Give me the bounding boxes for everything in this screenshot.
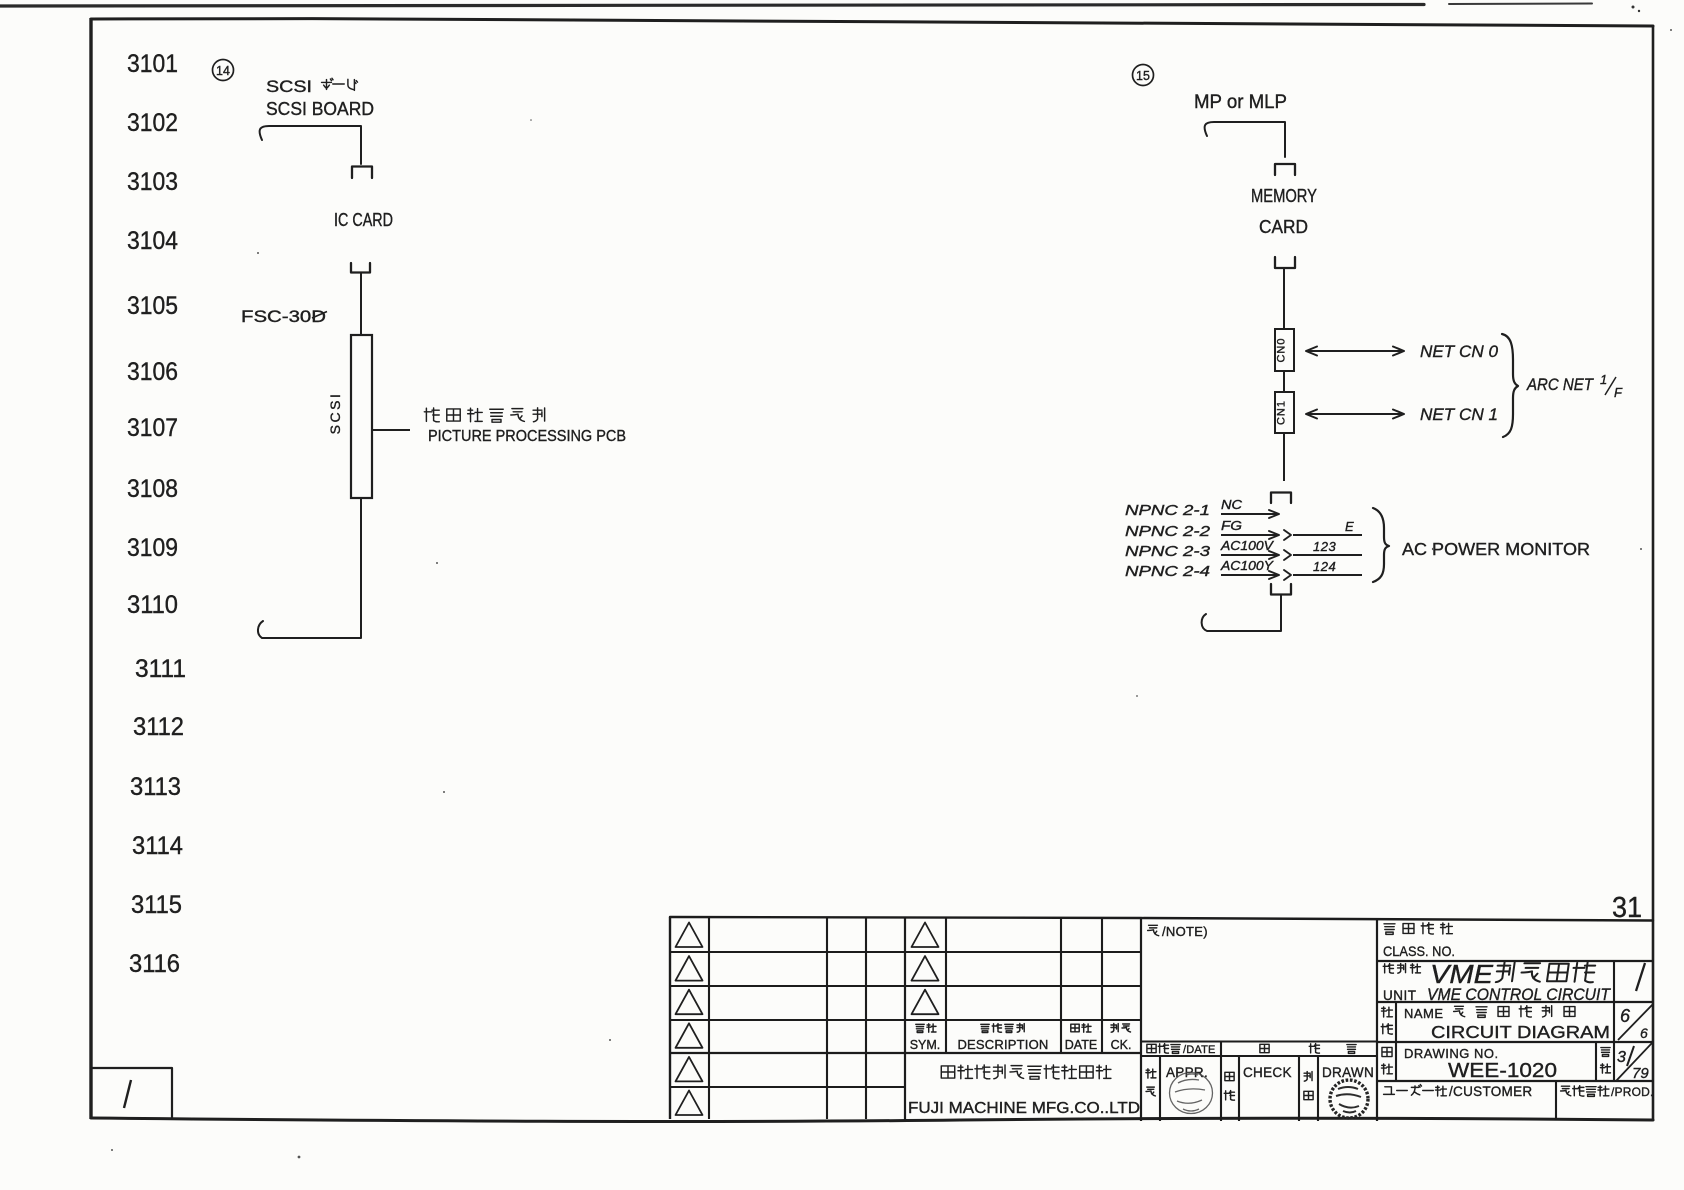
svg-text:PICTURE PROCESSING PCB: PICTURE PROCESSING PCB	[428, 428, 626, 445]
svg-text:NPNC 2-3: NPNC 2-3	[1125, 543, 1211, 560]
svg-text:3114: 3114	[132, 832, 183, 860]
svg-text:3102: 3102	[127, 109, 178, 137]
svg-text:UNIT: UNIT	[1383, 988, 1417, 1003]
svg-text:SYM.: SYM.	[910, 1038, 941, 1052]
svg-text:CLASS. NO.: CLASS. NO.	[1383, 943, 1455, 959]
svg-text:123: 123	[1313, 539, 1336, 554]
svg-text:6: 6	[1620, 1006, 1631, 1026]
svg-text:3106: 3106	[127, 358, 178, 386]
svg-text:3113: 3113	[130, 773, 181, 801]
svg-text:NET CN 1: NET CN 1	[1420, 405, 1498, 424]
svg-text:1: 1	[1600, 372, 1607, 387]
svg-text:3116: 3116	[129, 950, 180, 978]
svg-text:3112: 3112	[133, 713, 184, 741]
svg-text:124: 124	[1313, 559, 1336, 574]
svg-text:E: E	[1345, 519, 1354, 534]
svg-text:CIRCUIT DIAGRAM: CIRCUIT DIAGRAM	[1431, 1022, 1610, 1042]
svg-text:CN0: CN0	[1276, 337, 1288, 362]
svg-text:3115: 3115	[131, 891, 182, 919]
svg-text:NPNC 2-1: NPNC 2-1	[1125, 502, 1210, 519]
svg-text:FUJI MACHINE MFG.CO..LTD: FUJI MACHINE MFG.CO..LTD	[908, 1100, 1140, 1117]
svg-text:NPNC 2-2: NPNC 2-2	[1125, 523, 1211, 540]
svg-text:/CUSTOMER: /CUSTOMER	[1449, 1084, 1532, 1099]
svg-text:3110: 3110	[127, 591, 178, 619]
svg-text:CK.: CK.	[1111, 1038, 1132, 1052]
svg-text:DATE: DATE	[1065, 1038, 1097, 1052]
svg-text:NET CN 0: NET CN 0	[1420, 342, 1499, 361]
svg-text:SCSI: SCSI	[327, 392, 343, 435]
svg-text:3103: 3103	[127, 168, 178, 196]
svg-text:79: 79	[1632, 1065, 1649, 1082]
svg-text:15: 15	[1136, 69, 1150, 83]
svg-text:DRAWN: DRAWN	[1322, 1065, 1374, 1080]
svg-text:NAME: NAME	[1404, 1006, 1444, 1021]
svg-text:3: 3	[1617, 1049, 1626, 1066]
svg-text:31: 31	[1612, 892, 1642, 924]
svg-text:DESCRIPTION: DESCRIPTION	[957, 1037, 1048, 1052]
svg-text:3101: 3101	[127, 50, 178, 78]
svg-text:CHECK: CHECK	[1243, 1065, 1292, 1080]
svg-text:AC100Y: AC100Y	[1220, 559, 1275, 573]
svg-text:NC: NC	[1221, 498, 1243, 512]
svg-text:/DATE: /DATE	[1183, 1044, 1216, 1056]
svg-text:3111: 3111	[135, 655, 186, 683]
svg-text:CARD: CARD	[1259, 217, 1308, 237]
svg-text:NPNC 2-4: NPNC 2-4	[1125, 563, 1210, 580]
svg-text:CN1: CN1	[1276, 400, 1288, 425]
svg-text:FG: FG	[1221, 519, 1242, 533]
svg-text:3105: 3105	[127, 292, 178, 320]
svg-text:AC POWER MONITOR: AC POWER MONITOR	[1402, 539, 1590, 559]
svg-text:3107: 3107	[127, 414, 178, 442]
svg-text:6: 6	[1640, 1025, 1648, 1041]
svg-text:14: 14	[216, 64, 230, 78]
svg-text:MEMORY: MEMORY	[1251, 186, 1317, 206]
svg-text:AC100V: AC100V	[1220, 539, 1275, 553]
svg-text:VME CONTROL CIRCUIT: VME CONTROL CIRCUIT	[1427, 985, 1611, 1004]
svg-text:MP or MLP: MP or MLP	[1194, 92, 1287, 113]
svg-text:/PROD.: /PROD.	[1611, 1085, 1654, 1099]
svg-text:3104: 3104	[127, 227, 178, 255]
svg-text:3109: 3109	[127, 534, 178, 562]
svg-text:F: F	[1614, 385, 1623, 400]
svg-text:SCSI BOARD: SCSI BOARD	[266, 99, 374, 119]
svg-text:IC CARD: IC CARD	[334, 210, 393, 230]
svg-text:/NOTE): /NOTE)	[1162, 924, 1208, 939]
svg-text:SCSI: SCSI	[266, 77, 312, 96]
svg-text:3108: 3108	[127, 475, 178, 503]
svg-text:ARC NET: ARC NET	[1526, 375, 1594, 394]
svg-text:WEE-1020: WEE-1020	[1448, 1059, 1557, 1082]
